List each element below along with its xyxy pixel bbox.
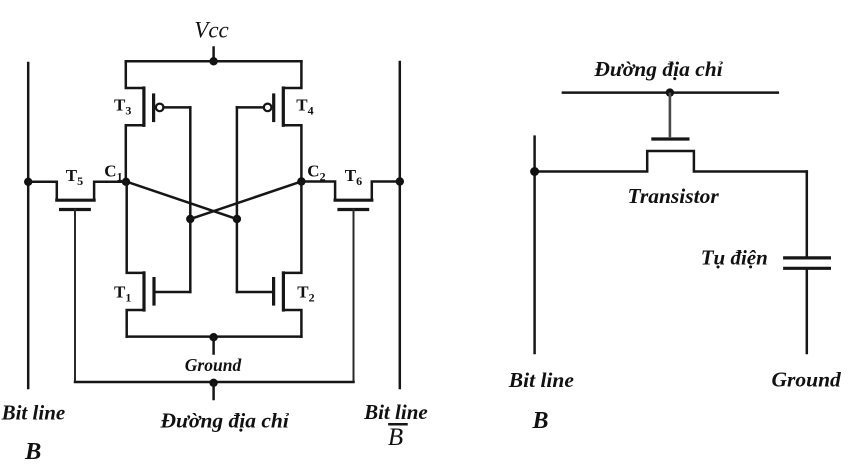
capacitor top plate	[785, 256, 830, 259]
wire word line stub	[212, 383, 215, 399]
svg-text:Đường địa chỉ: Đường địa chỉ	[593, 57, 723, 81]
svg-text:B: B	[532, 408, 549, 434]
transistor DRAM channel hump	[535, 151, 807, 172]
svg-text:B: B	[24, 438, 41, 465]
bit line B (left vertical)	[27, 63, 30, 388]
transistor T3 bubble	[156, 104, 164, 112]
svg-text:B: B	[388, 424, 403, 451]
transistor T2 channel bar	[282, 273, 285, 310]
transistor T6 body	[301, 182, 399, 201]
transistor T1 channel bar	[142, 273, 145, 310]
svg-text:Vcc: Vcc	[194, 18, 228, 43]
node left cross junction	[186, 215, 194, 223]
transistor T1 gate bar	[152, 279, 155, 304]
svg-text:Bit line: Bit line	[1, 401, 66, 425]
wire T2 gate to left	[237, 291, 274, 294]
bit line B-bar (right vertical)	[399, 62, 402, 388]
node address junction	[666, 88, 674, 96]
transistor T3 channel bar	[142, 88, 145, 125]
wire right cross-couple vertical	[236, 107, 239, 292]
transistor T3 body	[126, 61, 144, 181]
svg-text:Tụ điện: Tụ điện	[701, 246, 768, 270]
transistor T4 body	[283, 61, 301, 181]
wire capacitor to ground	[806, 268, 809, 353]
wire top Vcc rail	[126, 60, 302, 63]
transistor T6 channel bar	[335, 199, 372, 202]
wire T3 gate to right	[164, 106, 191, 109]
node DRAM bit line tap	[530, 167, 539, 176]
node right cross junction	[233, 215, 241, 223]
label B-bar overline	[389, 423, 406, 426]
capacitor bottom plate	[785, 267, 830, 270]
node bit line B-bar tap	[396, 177, 404, 185]
svg-text:Bit line: Bit line	[363, 400, 428, 424]
transistor T5 gate bar	[61, 208, 90, 211]
transistor T5 body	[28, 182, 126, 200]
wire Vcc stub	[212, 48, 215, 62]
wire T1 gate to right	[154, 291, 190, 294]
transistor T2 gate bar	[272, 279, 275, 304]
node bit line B tap	[24, 178, 32, 186]
transistor DRAM gate bar	[653, 137, 688, 140]
wire to capacitor	[806, 172, 809, 257]
svg-text:Transistor: Transistor	[628, 184, 720, 208]
wire T5 gate down	[74, 210, 76, 383]
svg-text:Bit line: Bit line	[508, 368, 575, 392]
bit line B (DRAM vertical)	[533, 137, 536, 353]
transistor T4 bubble	[264, 104, 272, 112]
wire address line	[563, 91, 778, 94]
svg-text:Đường địa chỉ: Đường địa chỉ	[160, 409, 290, 433]
transistor T4 gate bar	[272, 95, 275, 121]
wire ground stub	[212, 337, 215, 353]
node word line junction	[209, 379, 217, 387]
transistor T5 channel bar	[57, 199, 94, 202]
node ground junction	[209, 333, 217, 341]
wire left cross-couple vertical	[189, 107, 192, 292]
svg-text:Ground: Ground	[772, 368, 843, 392]
wire bottom ground rail	[127, 335, 302, 338]
wire DRAM gate stub	[669, 93, 672, 138]
transistor T3 gate bar	[152, 95, 155, 121]
transistor T4 channel bar	[282, 88, 285, 125]
transistor T6 gate bar	[339, 208, 368, 211]
wire T6 gate down	[353, 210, 355, 383]
wire diagonal C2 to left gate	[190, 182, 301, 220]
wire T4 gate to left	[237, 106, 264, 109]
wire diagonal C1 to right gate	[126, 182, 237, 220]
svg-text:Ground: Ground	[185, 355, 242, 375]
node C2	[297, 177, 305, 185]
node C1	[122, 178, 130, 186]
node Vcc junction	[209, 57, 217, 65]
transistor T2 body	[283, 182, 301, 337]
wire word line	[75, 381, 354, 384]
transistor T1 body	[127, 182, 144, 337]
